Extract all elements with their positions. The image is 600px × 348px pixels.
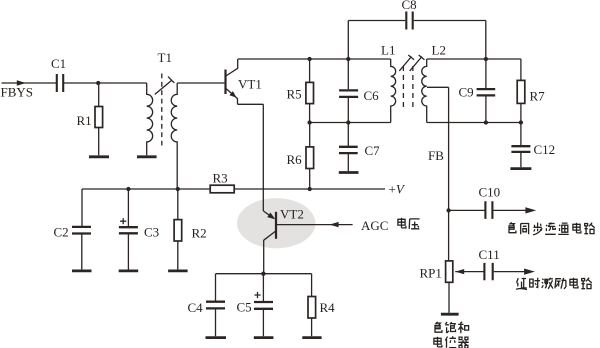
resistor R3 <box>210 185 234 193</box>
wire +V rail <box>82 188 385 190</box>
svg-text:R3: R3 <box>213 171 228 186</box>
node R7/C12 <box>519 120 523 124</box>
svg-text:C5: C5 <box>237 300 252 315</box>
node R6 bottom <box>308 187 312 191</box>
capacitor C7 <box>339 123 358 172</box>
ground under C4 <box>206 336 227 339</box>
svg-text:L2: L2 <box>432 43 446 58</box>
wire VT2 emitter <box>263 240 265 274</box>
transformer T1 tuning slider <box>155 77 175 95</box>
capacitor C5 (electrolytic) <box>254 274 273 337</box>
RP1 wiper arrow <box>455 269 483 274</box>
svg-text:C1: C1 <box>51 56 66 71</box>
capacitor C10 <box>449 201 526 219</box>
label 延时激励电路 (delay drive circuit) <box>516 278 592 290</box>
node R5 top <box>307 57 311 61</box>
wire AGC to VT2 base <box>277 224 353 226</box>
ground under R2 <box>168 269 188 272</box>
potentiometer RP1 <box>446 261 453 313</box>
svg-text:T1: T1 <box>158 50 172 65</box>
ground under R4 <box>302 336 321 339</box>
transformer T1 primary winding <box>147 83 153 155</box>
svg-text:C8: C8 <box>402 0 417 12</box>
ground under RP1 <box>441 313 459 316</box>
label 电位器 (potentiometer) <box>434 336 469 348</box>
svg-text:VT2: VT2 <box>280 207 304 222</box>
AGC direction arrow <box>329 222 338 227</box>
L1/L2 core (dashed) <box>403 66 413 107</box>
node R2/T1 <box>176 187 180 191</box>
node C7 top <box>346 120 350 124</box>
svg-text:C7: C7 <box>365 143 381 158</box>
svg-text:R5: R5 <box>287 87 302 102</box>
capacitor C9 <box>477 59 496 123</box>
svg-text:FBYS: FBYS <box>1 85 34 100</box>
node C6/C8 <box>346 57 350 61</box>
svg-text:C6: C6 <box>364 88 380 103</box>
transformer T1 secondary winding <box>171 83 177 189</box>
ground under R1 <box>89 155 109 158</box>
node junction at R1 top <box>96 81 100 85</box>
svg-text:R1: R1 <box>77 113 92 128</box>
input signal arrow <box>17 80 26 85</box>
capacitor C4 <box>206 274 225 337</box>
wire input FBYS <box>2 82 57 84</box>
svg-text:FB: FB <box>428 148 444 163</box>
resistor R1 <box>95 83 103 155</box>
transformer T1 core (dashed) <box>161 74 163 146</box>
L2 tuning slider <box>410 55 425 71</box>
shaded ellipse behind VT2 <box>237 198 315 248</box>
transistor VT1 <box>226 59 238 99</box>
transistor VT2 <box>263 211 276 240</box>
inductor L2 <box>422 59 427 123</box>
wire rail2 right <box>427 122 521 124</box>
ground under C3 <box>119 269 139 272</box>
svg-text:R4: R4 <box>320 300 336 315</box>
svg-text:C9: C9 <box>459 85 474 100</box>
resistor R4 <box>308 274 316 337</box>
resistor R6 <box>306 123 314 190</box>
arrow to color sync circuit <box>525 207 536 213</box>
wire top rail (VT1 collector) <box>238 58 391 60</box>
wire rail2 left <box>310 122 391 124</box>
node C5 top <box>261 272 265 276</box>
ground under C12 <box>510 167 531 170</box>
arrow to delay drive circuit <box>524 269 535 275</box>
wire L2 tap FB <box>427 87 449 261</box>
node C9/C8 <box>484 57 488 61</box>
node R5/R6 <box>307 120 311 124</box>
svg-text:L1: L1 <box>381 43 395 58</box>
label 色饱和 (color saturation) <box>435 322 469 333</box>
capacitor C2 <box>72 189 91 270</box>
capacitor C3 (electrolytic) <box>119 189 138 270</box>
capacitor C1 <box>57 74 63 92</box>
ground under C5 <box>254 336 274 339</box>
svg-text:R7: R7 <box>530 89 546 104</box>
resistor R2 <box>174 189 182 270</box>
svg-text:RP1: RP1 <box>420 266 442 281</box>
inductor L1 <box>391 59 396 123</box>
svg-text:C4: C4 <box>188 300 204 315</box>
capacitor C6 <box>339 59 358 123</box>
svg-text:C12: C12 <box>534 142 556 157</box>
svg-text:+V: +V <box>389 182 406 197</box>
capacitor C12 <box>511 123 530 168</box>
label 色同步选通电路 (color sync gating circuit) <box>509 222 595 234</box>
svg-text:AGC: AGC <box>361 218 388 233</box>
svg-text:C11: C11 <box>479 247 500 262</box>
wire VT1 emitter <box>238 98 264 211</box>
wire C1 to T1 <box>63 82 147 84</box>
node FB/C10 <box>446 208 450 212</box>
capacitor C11 <box>484 263 524 280</box>
node C9 bottom <box>484 120 488 124</box>
resistor R7 <box>517 59 525 123</box>
capacitor C8 <box>348 12 486 60</box>
wire emitter rail <box>216 273 312 275</box>
svg-text:R6: R6 <box>287 152 303 167</box>
svg-text:R2: R2 <box>192 226 207 241</box>
wire T1 to VT1 base <box>177 82 224 84</box>
resistor R5 <box>306 59 314 123</box>
ground under C7 <box>339 171 359 174</box>
L1 tuning slider <box>399 55 414 71</box>
svg-text:C10: C10 <box>479 185 501 200</box>
svg-text:C3: C3 <box>144 225 159 240</box>
svg-text:C2: C2 <box>54 225 69 240</box>
wire L2 top to R7 <box>427 58 521 60</box>
svg-text:VT1: VT1 <box>238 77 262 92</box>
node C3 top <box>126 187 130 191</box>
ground under T1 <box>137 155 157 158</box>
ground under C2 <box>72 269 92 272</box>
